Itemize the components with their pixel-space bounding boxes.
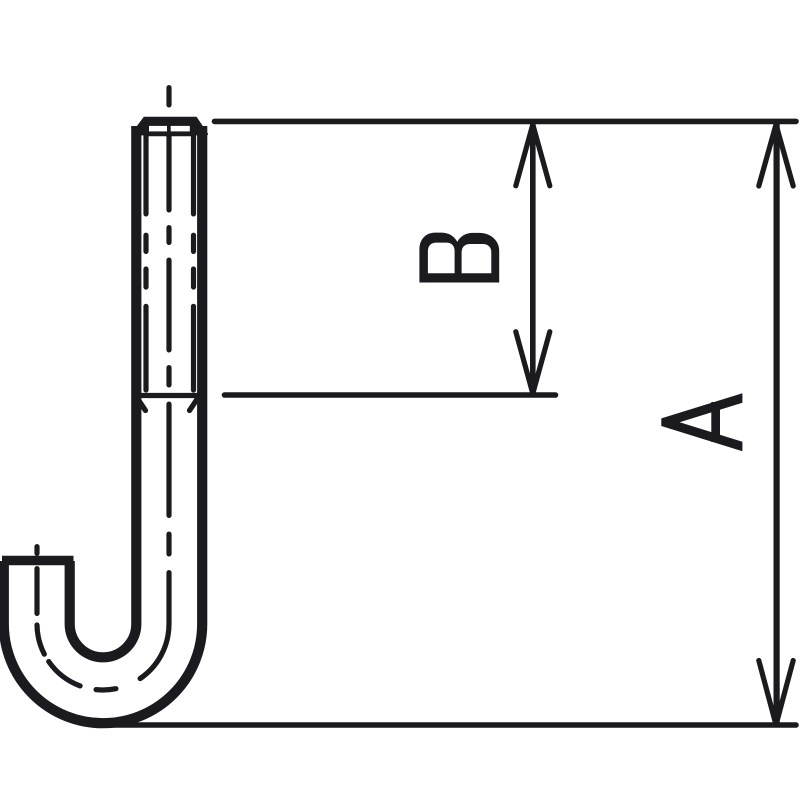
thread runout diagonal right: [190, 397, 199, 411]
centerline of J-bolt (dash-dot chain line): [37, 88, 169, 690]
thread root line left (part solid, part dashed): [143, 130, 148, 391]
arrowhead A top: [759, 125, 793, 187]
left outline: shank left edge + inner bend arc + hook leg right edge: [70, 126, 137, 657]
arrowhead A bottom: [759, 661, 793, 725]
chamfer base thin line: [146, 131, 194, 136]
label B (rotated 90 CCW, drawn as path): [419, 233, 499, 283]
top extension line: [215, 119, 797, 125]
thread runout diagonal left: [137, 397, 146, 411]
arrowhead B top: [516, 125, 550, 186]
bolt head chamfered cap (filled): [133, 118, 207, 134]
arrowhead B bottom: [516, 332, 550, 394]
dimension line A: [773, 124, 779, 725]
dimension line B: [530, 124, 536, 393]
white notches between cap edge and chamfer line: [149, 126, 167, 131]
bottom extension line (A bottom): [110, 722, 796, 728]
thread root line right: [191, 130, 196, 391]
thread end line: [136, 393, 199, 398]
extension line at thread end (B bottom): [225, 392, 556, 398]
hook tip end face: [2, 556, 74, 566]
label A (rotated 90 CCW, drawn as path): [661, 393, 742, 451]
right outline: shank right edge + outer bend arc + hook leg left edge: [4, 126, 202, 723]
